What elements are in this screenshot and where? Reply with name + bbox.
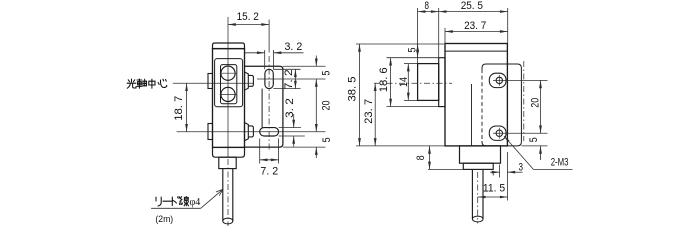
inner face plate — [215, 59, 243, 107]
lower optical axis / slot center line — [177, 131, 326, 133]
inner sensor plate — [221, 65, 237, 104]
dimension 3.2 (upper slot width) — [264, 50, 266, 69]
svg-text:20: 20 — [321, 101, 333, 111]
optical axis line — [173, 82, 254, 84]
mounting surface dash-dot line — [523, 61, 525, 141]
svg-text:5: 5 — [528, 137, 540, 142]
svg-text:(2m): (2m) — [155, 214, 173, 225]
svg-text:14: 14 — [398, 77, 410, 87]
svg-text:5: 5 — [321, 137, 333, 142]
svg-text:7. 2: 7. 2 — [260, 165, 278, 177]
svg-text:18. 7: 18. 7 — [173, 96, 185, 121]
label リード線φ4 (2m) with leader — [156, 197, 200, 208]
cable centerline dash-dot right — [477, 172, 479, 224]
svg-text:3. 2: 3. 2 — [285, 41, 303, 53]
svg-text:11. 5: 11. 5 — [483, 182, 505, 194]
right view body outline — [445, 44, 507, 146]
lower hole extension line — [493, 132, 548, 134]
svg-text:18. 6: 18. 6 — [378, 67, 390, 92]
optical axis dash-dot line — [374, 82, 452, 84]
dimension 5 (top to tab) — [417, 44, 419, 58]
dimension 7.2 (lower slot width) — [259, 139, 261, 164]
svg-text:5: 5 — [407, 48, 419, 53]
upper left tab — [208, 74, 213, 89]
lower lens cap — [248, 126, 253, 137]
dimension 18.7 (left, axis to axis) — [186, 83, 188, 132]
svg-text:3. 2: 3. 2 — [284, 98, 296, 118]
lower mounting slot — [260, 128, 279, 136]
svg-text:23. 7: 23. 7 — [464, 20, 486, 32]
svg-text:8: 8 — [424, 0, 429, 12]
sensing head protrusion — [418, 64, 439, 101]
upper circle crosshair — [220, 72, 237, 74]
cable end ellipse — [223, 218, 233, 224]
dimension 15.2 (top, body centerline to slot centerline) — [268, 20, 270, 53]
dimension 5 (lower slot center to plate bottom) — [315, 147, 317, 158]
dimension 25.5 (overall depth) — [507, 8, 509, 44]
svg-text:7. 2: 7. 2 — [283, 69, 295, 89]
upper hole extension line — [493, 79, 548, 81]
plate top extension line — [283, 65, 326, 67]
cable centerline dash-dot — [227, 159, 229, 226]
hidden plate edge (dashed) — [481, 69, 483, 141]
upper hole pad — [489, 73, 506, 87]
dimension 20 (slot center to slot center) — [315, 79, 317, 132]
upper mounting slot — [265, 69, 273, 88]
upper screw hole circle — [221, 66, 235, 80]
mounting plate (side tab) outline — [245, 66, 283, 147]
dimension 14 (protrusion height) — [404, 63, 418, 65]
cable bushing step — [219, 157, 236, 168]
svg-text:15. 2: 15. 2 — [237, 11, 259, 23]
svg-text:5: 5 — [321, 71, 333, 76]
plate bottom extension line — [283, 146, 326, 148]
dimension 23.7 (axis to bottom) — [374, 83, 376, 146]
svg-text:8: 8 — [415, 155, 427, 160]
label 光軸中心 (optical axis center) — [127, 79, 167, 88]
dimension 38.5 (overall height) — [356, 43, 444, 45]
body molding seam — [471, 84, 473, 146]
svg-text:φ4: φ4 — [190, 197, 201, 208]
cable boss step 1 — [460, 146, 501, 163]
dimension 20 (hole spacing) — [540, 80, 542, 133]
cable boss step 2 — [463, 163, 493, 169]
dimension 11.5 (cable center to body face) — [506, 152, 508, 201]
svg-text:25. 5: 25. 5 — [461, 0, 483, 12]
slot centerline dash-dot — [268, 56, 270, 152]
body vertical centerline — [227, 17, 229, 158]
svg-text:38. 5: 38. 5 — [346, 77, 358, 102]
mounting plate (partially hidden) — [486, 64, 521, 146]
left face tab — [439, 58, 445, 107]
mounting plate inner left edge — [261, 89, 263, 128]
leader open arrowhead — [216, 189, 223, 195]
svg-text:23. 7: 23. 7 — [363, 99, 375, 124]
upper lens trapezoid — [245, 72, 249, 90]
svg-text:3: 3 — [518, 161, 523, 173]
lower hole pad — [489, 126, 506, 140]
dimension 23.7 (body depth) — [444, 28, 446, 44]
svg-text:20: 20 — [529, 98, 541, 108]
lower left tab — [208, 124, 213, 140]
body bottom extension line right — [521, 145, 547, 147]
cap seam line — [445, 50, 507, 52]
lower circle crosshair — [220, 93, 237, 95]
dimension 3.2 (lower slot height) — [279, 127, 301, 129]
lower lens trapezoid — [245, 123, 249, 141]
dimension 3 (boss edge to body face) — [499, 165, 501, 178]
lead wire cable — [222, 169, 224, 221]
dimension 8 (protrusion depth) — [417, 8, 419, 64]
body bottom tray — [213, 147, 245, 157]
right view lead wire cable — [471, 169, 473, 219]
body top cap — [213, 43, 245, 49]
lower hole vertical crosshair — [498, 128, 500, 139]
dimension 18.6 (tab height) — [387, 57, 439, 59]
dimension 7.2 (upper slot height) — [273, 68, 300, 70]
main body outline — [213, 49, 245, 148]
label 2-M3 with leader — [504, 136, 533, 169]
svg-text:2-M3: 2-M3 — [551, 156, 569, 168]
upper hole vertical crosshair — [498, 75, 500, 86]
lower screw hole circle — [221, 87, 235, 101]
dimension 5 (lower hole to bottom) — [540, 146, 542, 160]
dimension 5 (plate top to upper slot center) — [315, 56, 317, 67]
upper slot center extension line — [257, 78, 326, 80]
lower M3 hole — [496, 130, 502, 136]
upper M3 hole — [496, 77, 502, 83]
dimension 8 (bottom boss height) — [428, 168, 463, 170]
upper lens cap — [248, 75, 253, 86]
